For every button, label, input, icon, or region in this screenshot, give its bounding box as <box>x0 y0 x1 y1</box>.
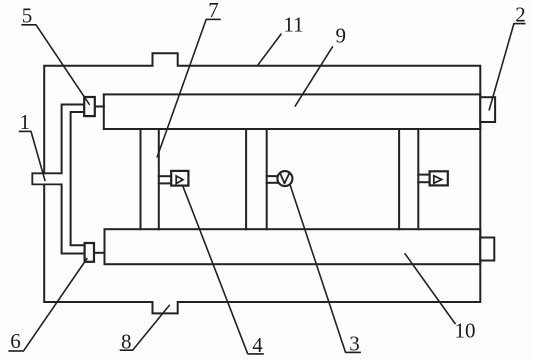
underline for label 2 <box>514 23 526 25</box>
bottom pipe 10 <box>105 229 481 264</box>
svg-text:6: 6 <box>10 329 21 353</box>
leader line for 10 <box>405 254 455 324</box>
svg-text:8: 8 <box>121 330 132 354</box>
underline for label 1 <box>19 130 31 132</box>
svg-text:5: 5 <box>22 4 33 28</box>
underline for label 7 <box>206 18 221 20</box>
right pump stub upper <box>418 174 431 176</box>
right tube line a <box>398 129 400 229</box>
valve 6 <box>85 243 94 262</box>
svg-text:2: 2 <box>515 3 526 27</box>
leader line for 7 <box>157 19 206 157</box>
svg-text:3: 3 <box>349 332 360 356</box>
underline for label 8 <box>120 349 133 351</box>
meter 3 letter V <box>280 173 290 184</box>
top pipe 9 <box>104 94 481 129</box>
inlet port 1 <box>32 173 61 184</box>
leader line for 2 <box>489 24 514 110</box>
outer shell 11 (housing with top tab and bottom tab) <box>44 53 480 313</box>
tube 7 (left vertical tube, line a) <box>140 129 142 229</box>
middle tube line a <box>245 129 247 229</box>
tube 7 line b <box>158 129 160 229</box>
wire: valve 5 to top pipe <box>95 106 104 108</box>
leader line for 5 <box>36 25 89 105</box>
svg-text:11: 11 <box>283 13 303 37</box>
right pump triangle <box>434 176 442 184</box>
underline for label 6 <box>8 350 23 352</box>
leader line for 4 <box>183 186 248 353</box>
right pump stub lower <box>418 181 431 183</box>
underline for label 5 <box>21 24 36 26</box>
leader line for 11 <box>257 34 281 66</box>
wire: valve 6 to bottom pipe <box>94 252 105 254</box>
leader line for 9 <box>295 47 332 106</box>
wire: pipe inner line 5-to-6 <box>71 112 85 245</box>
svg-text:10: 10 <box>455 318 476 342</box>
pump 4 stub lower <box>159 182 172 184</box>
pump 4 body <box>171 171 188 186</box>
leader line for 1 <box>31 131 45 180</box>
svg-text:7: 7 <box>208 0 219 22</box>
valve 5 <box>84 97 95 116</box>
svg-text:4: 4 <box>252 333 263 357</box>
svg-text:9: 9 <box>335 24 346 48</box>
wire: pipe from valve 5 down (outer line) <box>62 105 85 174</box>
right tube line b <box>417 129 419 229</box>
meter 3 stub lower <box>267 182 278 184</box>
right pump body <box>430 171 448 185</box>
leader line for 8 <box>133 305 170 350</box>
meter 3 stub upper <box>267 175 278 177</box>
leader line for 3 <box>290 185 345 352</box>
port 2 (top right outlet) <box>480 97 495 122</box>
bottom right port <box>480 238 494 261</box>
svg-text:1: 1 <box>20 110 31 134</box>
pump 4 stub upper <box>159 175 172 177</box>
meter 3 body <box>277 171 292 186</box>
underline for label 3 <box>345 351 361 353</box>
leader line for 6 <box>24 259 87 351</box>
wire: pipe to valve 6 (outer line) <box>62 184 85 253</box>
pump 4 triangle <box>176 176 183 184</box>
middle tube line b <box>266 129 268 229</box>
underline for label 4 <box>248 353 264 355</box>
